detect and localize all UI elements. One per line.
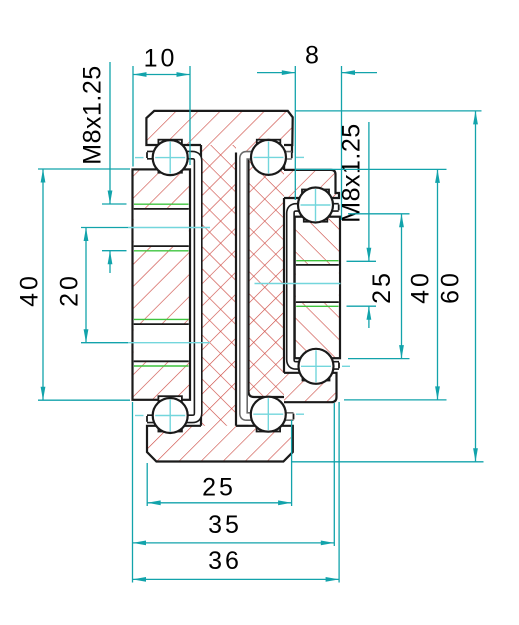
svg-text:60: 60 bbox=[437, 270, 465, 304]
svg-text:20: 20 bbox=[56, 273, 84, 307]
left rail hole centerlines bbox=[128, 227, 210, 229]
svg-text:35: 35 bbox=[208, 511, 242, 539]
column left-right edge bbox=[235, 153, 237, 426]
notch above ball B3 in right upper flange bbox=[302, 190, 329, 200]
ball B4 centerlines bbox=[315, 350, 317, 382]
bottom flange outline bbox=[147, 426, 293, 462]
intermediate rail column left edge bbox=[200, 145, 202, 426]
outer rail top flange bbox=[146, 111, 292, 145]
ball B6 centerlines bbox=[267, 398, 269, 430]
dimension M8x1.25 left bbox=[109, 62, 111, 204]
svg-text:40: 40 bbox=[407, 270, 435, 304]
ball B4 bbox=[299, 349, 334, 384]
right rail bbox=[295, 217, 340, 359]
left rail M8 tapped hole (cy=227.5) bbox=[134, 209, 189, 246]
ball B2 bbox=[251, 140, 286, 175]
ball B5 bbox=[153, 398, 188, 433]
notch above ball B5 in left rail bottom bbox=[158, 396, 182, 401]
notch above ball B2 in top flange bbox=[257, 140, 281, 147]
svg-text:25: 25 bbox=[202, 474, 236, 502]
right upper flange outline bbox=[284, 158, 339, 198]
ball cage C (right rail C-shape) bbox=[290, 207, 339, 365]
dimension 25 right (right rail height) bbox=[348, 213, 410, 215]
thread major dia lines bbox=[134, 318, 189, 320]
thread major dia lines right bbox=[296, 260, 338, 262]
dimension 60 (overall height) bbox=[295, 110, 481, 112]
ball B3 centerlines bbox=[315, 189, 317, 221]
dimension 40 left (rail height) bbox=[38, 168, 130, 170]
notch above ball B4 in right rail bottom bbox=[304, 354, 328, 359]
notch below ball B4 in right lower flange bbox=[303, 372, 330, 381]
ball B6 bbox=[251, 397, 286, 432]
ball B3 bbox=[298, 188, 333, 223]
thread major dia lines bbox=[134, 203, 189, 205]
notch below ball B3 in right rail top bbox=[304, 216, 328, 222]
ball cage B (center C-shape) bbox=[244, 155, 294, 416]
dimension 35 bbox=[132, 402, 134, 583]
left rail M8 tapped hole (cy=342.7) bbox=[134, 324, 189, 361]
dimension 10 (left rail width) bbox=[132, 66, 134, 167]
ball B2 centerlines bbox=[268, 141, 270, 173]
center members hatching bbox=[146, 111, 339, 462]
column right-right edge bbox=[283, 158, 285, 170]
notch above ball B1 in top flange bbox=[158, 140, 182, 147]
notch below ball B6 in bottom flange bbox=[257, 425, 281, 432]
dimension 8 (right rail width) bbox=[294, 66, 296, 200]
right rail M8 tapped hole bbox=[296, 265, 339, 302]
svg-text:8: 8 bbox=[305, 42, 322, 70]
right lower flange outline bbox=[284, 373, 337, 402]
ball B1 bbox=[153, 140, 188, 175]
ball row centerline dashes bbox=[135, 157, 144, 159]
dimension 20 (hole spacing) bbox=[81, 227, 128, 229]
svg-text:25: 25 bbox=[368, 270, 396, 304]
ball B5 centerlines bbox=[169, 400, 171, 432]
svg-text:10: 10 bbox=[144, 45, 178, 73]
column right bottom edge bbox=[249, 392, 285, 398]
ball B1 centerlines bbox=[169, 142, 171, 174]
notch below ball B5 in bottom flange bbox=[158, 425, 182, 432]
dimension M8x1.25 right bbox=[368, 122, 370, 261]
dimension 25 bottom (flange width) bbox=[146, 463, 148, 506]
svg-text:M8x1.25: M8x1.25 bbox=[338, 123, 366, 222]
svg-text:36: 36 bbox=[208, 547, 242, 575]
column right-left edge bbox=[247, 153, 249, 392]
svg-text:40: 40 bbox=[16, 273, 44, 307]
ball cage A (left C-shape) bbox=[147, 155, 198, 419]
bottom flange top edge over slot bbox=[236, 425, 249, 427]
notch below ball B1 in left rail top bbox=[158, 168, 182, 172]
dimension 36 (overall width) bbox=[338, 402, 340, 583]
right rail hole centerline bbox=[255, 283, 341, 285]
dimension 40 right bbox=[295, 168, 446, 170]
left rail bbox=[133, 169, 191, 399]
svg-text:M8x1.25: M8x1.25 bbox=[79, 65, 107, 164]
